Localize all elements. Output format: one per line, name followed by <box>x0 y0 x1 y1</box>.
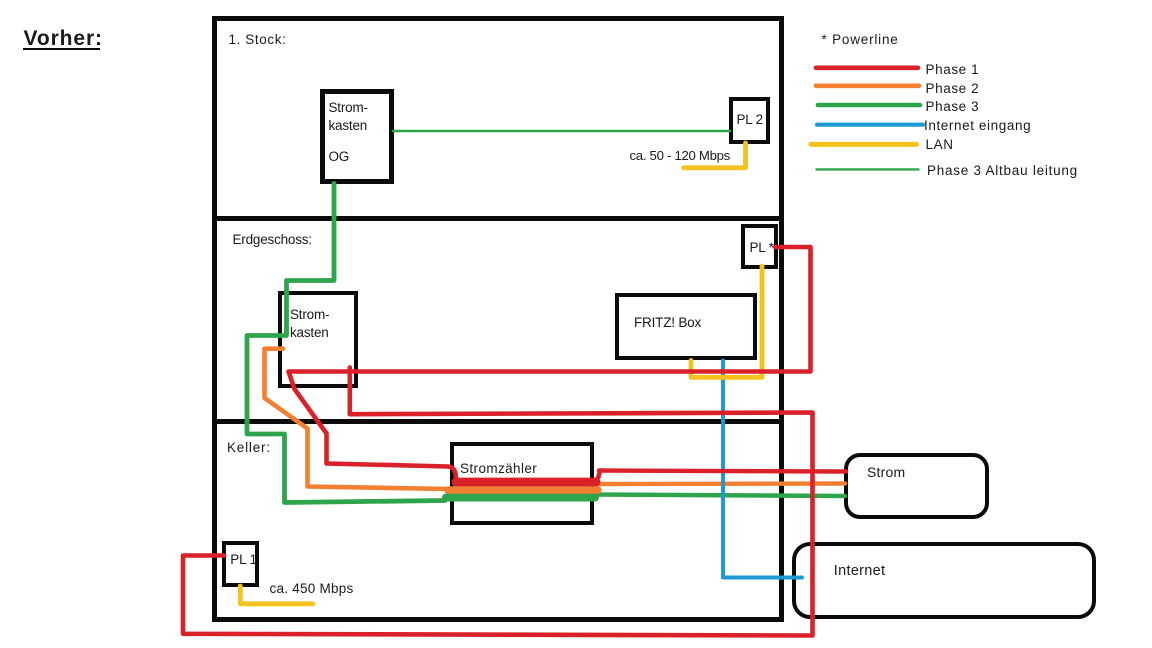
label Strom <box>867 466 905 480</box>
wire LAN yellow: PL 1 stub <box>240 586 313 604</box>
label Internet <box>834 565 886 579</box>
wire Altbau phase3 thin green: Stromkasten OG to PL 2 <box>393 130 730 133</box>
house outer box <box>212 16 784 622</box>
label PL 1 <box>230 553 256 567</box>
wire LAN yellow: FRITZ! Box to PL * <box>691 266 762 377</box>
title underline <box>23 48 100 51</box>
green thick bar in Stromzaehler <box>446 494 595 502</box>
legend swatch Internet eingang (blue) <box>817 123 923 127</box>
label Stromzaehler <box>460 462 537 476</box>
label OG <box>329 150 350 164</box>
legend title * Powerline <box>822 33 899 47</box>
red hook into thick bar <box>448 467 456 480</box>
box PL * <box>741 224 778 269</box>
wire phase 1 red branch: down to bottom, across to PL 1 <box>183 368 813 636</box>
box FRITZ! Box <box>615 293 757 360</box>
wire phase 1 red: PL * to Stromkasten EG and down to Stromzaehler <box>289 247 811 467</box>
label Erdgeschoss: <box>233 233 312 247</box>
red thick bar in Stromzaehler <box>456 478 596 487</box>
label ca. 450 Mbps <box>270 582 354 596</box>
label Stromkasten EG <box>290 306 329 341</box>
wire green thin: Stromzaehler to Strom box <box>594 495 845 497</box>
wire phase 2 orange: Stromkasten EG down to Stromzaehler <box>265 349 451 489</box>
legend swatch Phase 3 Altbau leitung (thin green) <box>817 168 919 170</box>
box Stromzaehler <box>450 442 595 525</box>
wire internet eingang blue: FRITZ! Box down to Internet box <box>723 361 802 578</box>
label Keller: <box>227 441 271 455</box>
legend swatch Phase 1 (red) <box>816 66 918 71</box>
wire LAN yellow: PL 2 to room (ca. 50-120 Mbps) <box>684 143 746 168</box>
label PL 2 <box>737 113 763 127</box>
box PL 2 <box>729 97 770 143</box>
wire phase 3 green thick: Stromkasten OG down to Stromzaehler <box>247 184 445 503</box>
label PL * <box>750 241 774 255</box>
legend swatch Phase 2 (orange) <box>816 84 919 89</box>
floor divider Erdgeschoss/Keller <box>216 419 780 424</box>
box Stromkasten EG <box>278 291 358 388</box>
label Stromkasten OG <box>329 99 368 136</box>
legend swatch LAN (yellow) <box>811 142 917 147</box>
label FRITZ! Box <box>634 316 701 330</box>
title Vorher: <box>24 28 103 49</box>
legend label LAN <box>926 138 954 152</box>
box Internet (rounded) <box>792 542 1096 619</box>
legend label Phase 1 <box>926 63 980 77</box>
legend label Phase 2 <box>926 82 980 96</box>
red hook out of thick bar <box>594 471 600 482</box>
orange thick bar in Stromzaehler <box>448 486 598 494</box>
legend swatch Phase 3 (green) <box>818 103 920 108</box>
box PL 1 <box>222 541 258 587</box>
floor divider 1.Stock/Erdgeschoss <box>216 216 780 221</box>
box Stromkasten OG <box>320 89 394 184</box>
label ca. 50 - 120 Mbps <box>630 149 730 163</box>
box Strom (rounded) <box>844 453 989 520</box>
wire red thin: Stromzaehler to Strom box <box>599 471 846 472</box>
wire orange thin: Stromzaehler to Strom box <box>597 481 845 486</box>
legend label Phase 3 <box>926 100 980 114</box>
legend label Phase 3 Altbau leitung <box>927 164 1078 178</box>
label 1. Stock: <box>229 33 287 47</box>
legend label Internet eingang <box>924 119 1031 133</box>
